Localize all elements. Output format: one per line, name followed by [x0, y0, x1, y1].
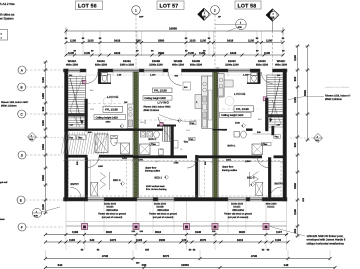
svg-text:D101C: D101C: [267, 206, 274, 209]
svg-text:5: 5: [251, 183, 252, 186]
svg-text:1100: 1100: [200, 38, 207, 42]
svg-text:400x 2100: 400x 2100: [266, 202, 277, 205]
svg-text:1100: 1100: [42, 77, 45, 83]
u56 entry wall: [85, 158, 88, 202]
window bottom u58 a: [228, 198, 246, 202]
u56 stair treads: [68, 76, 85, 78]
svg-text:F: F: [21, 225, 23, 229]
svg-text:BED 2: BED 2: [155, 177, 163, 180]
ffl box u58: [234, 106, 254, 112]
u58 pink post in wall: [263, 97, 267, 101]
label LOT 57: [157, 1, 184, 10]
svg-text:4745: 4745: [102, 254, 109, 258]
svg-text:4745: 4745: [251, 254, 258, 258]
svg-text:BED 3: BED 3: [113, 179, 121, 182]
u57 fan box upper: [190, 121, 197, 124]
svg-text:D102A: D102A: [106, 206, 113, 209]
u56 wc toilet: [102, 73, 108, 76]
u57 stair: [157, 125, 176, 127]
svg-text:WT11: WT11: [115, 142, 121, 145]
ceiling box u56: [94, 115, 126, 120]
svg-text:framing outline: framing outline: [222, 169, 238, 172]
svg-text:5: 5: [165, 176, 166, 179]
note box left edge: [0, 30, 8, 41]
u58 dim 900: [253, 133, 272, 135]
u58 stair treads: [267, 74, 283, 76]
svg-text:3413: 3413: [237, 238, 244, 242]
svg-text:235: 235: [136, 38, 141, 42]
svg-text:5273: 5273: [163, 254, 170, 258]
svg-text:1: 1: [135, 8, 137, 12]
small diamond markers 5A: [120, 124, 124, 128]
window bottom u57 a: [137, 198, 153, 202]
svg-text:E: E: [20, 198, 22, 202]
marker diamond A/1.06 right: [314, 134, 323, 143]
svg-text:3418: 3418: [114, 51, 121, 55]
svg-text:3520: 3520: [239, 230, 246, 234]
u57 bath top wall: [133, 128, 163, 130]
u58 wc toilet: [251, 73, 257, 76]
u57 bath fixtures row: [140, 132, 146, 138]
svg-text:129: 129: [182, 238, 187, 242]
svg-text:FFL 13.98: FFL 13.98: [154, 89, 167, 93]
svg-text:VERANDA: VERANDA: [157, 209, 169, 212]
grid bubble D: [18, 151, 26, 159]
svg-text:1,608: 1,608: [245, 160, 251, 163]
u58 bath top walls: [246, 128, 253, 130]
svg-text:800: 800: [294, 76, 297, 81]
door opening D100C top u58: [261, 72, 272, 83]
svg-text:UB: UB: [271, 16, 275, 19]
u57 cabinet row top: [183, 82, 191, 90]
ffl box u57: [153, 88, 173, 93]
u57 dim row mid: [134, 161, 212, 163]
svg-text:1100: 1100: [264, 51, 271, 55]
svg-text:Timber slat deck on ground: Timber slat deck on ground: [98, 213, 126, 216]
dim row bottom 1: [46, 234, 289, 236]
svg-text:2100x 2100: 2100x 2100: [154, 202, 167, 205]
svg-text:BATH 1: BATH 1: [228, 145, 237, 148]
u56 front door arc: [70, 187, 81, 198]
u57 shower: [140, 144, 151, 155]
svg-text:5: 5: [242, 124, 243, 127]
svg-text:1600: 1600: [98, 165, 104, 168]
svg-text:1100: 1100: [88, 38, 95, 42]
svg-text:Ceiling height 2420: Ceiling height 2420: [96, 116, 119, 119]
label LOT 58: [235, 1, 261, 9]
u56 dining table: [103, 97, 112, 106]
u56 kitchen counter: [128, 104, 134, 129]
svg-text:3520: 3520: [106, 230, 113, 234]
grid bubble E: [17, 196, 25, 204]
svg-text:h A2.2 Res: h A2.2 Res: [0, 2, 15, 6]
u57 rheem leader curve: [159, 115, 196, 122]
svg-text:1100: 1100: [294, 209, 297, 215]
u56 hwc: [121, 143, 130, 154]
svg-text:(not part of consent): (not part of consent): [102, 216, 123, 219]
svg-text:modules to be confirmed: modules to be confirmed: [325, 86, 350, 89]
u58 tiles box: [262, 142, 272, 146]
u56 stair arrow: [70, 78, 82, 124]
u57 bulkhead dashes: [139, 119, 200, 121]
dim row bottom 2: [46, 241, 289, 243]
svg-text:2600: 2600: [106, 120, 112, 123]
svg-text:1195: 1195: [42, 120, 45, 126]
svg-text:1415: 1415: [122, 157, 128, 160]
svg-text:1128: 1128: [136, 238, 143, 242]
section circle 2/A06 left-bottom: [32, 208, 41, 217]
svg-text:VERANDA: VERANDA: [232, 209, 244, 212]
u58 bath fixtures: [241, 131, 247, 138]
u57 upper floor dashed outline: [135, 161, 205, 197]
svg-text:1100: 1100: [188, 51, 195, 55]
u57 mid wall: [133, 155, 187, 158]
svg-text:Tiles: Tiles: [78, 136, 84, 139]
svg-text:10550: 10550: [181, 263, 189, 267]
svg-text:Ceiling height 2420: Ceiling height 2420: [144, 97, 166, 100]
svg-text:1815: 1815: [226, 159, 232, 162]
party wall 1 green: [133, 72, 139, 198]
grid bubble 2: [211, 5, 220, 14]
svg-text:LOT 58: LOT 58: [238, 3, 257, 9]
u58 fan box: [274, 135, 281, 138]
window D103B top: [144, 69, 163, 72]
u56 robe zigzag: [100, 173, 106, 189]
grid bubble A: [18, 66, 26, 74]
svg-text:A06: A06: [238, 26, 243, 29]
svg-text:1100: 1100: [294, 55, 297, 61]
dim row bottom 4: [46, 258, 331, 260]
svg-text:21346: 21346: [284, 144, 287, 150]
u58 stair treads lower: [267, 119, 283, 121]
svg-text:FFL 13.98: FFL 13.98: [236, 107, 249, 111]
svg-text:2418: 2418: [230, 51, 237, 55]
svg-text:3300: 3300: [42, 175, 45, 181]
svg-text:2980: 2980: [158, 38, 165, 42]
window bottom u56: [86, 198, 104, 202]
window D103C top: [228, 69, 250, 72]
u56 wc cabinets: [108, 75, 111, 84]
svg-text:ENTRY: ENTRY: [71, 183, 80, 186]
u58 wc wall: [258, 72, 261, 83]
svg-text:5: 5: [120, 125, 121, 128]
svg-text:D102B: D102B: [156, 206, 163, 209]
svg-text:1100: 1100: [248, 38, 255, 42]
grid bubble 1: [132, 6, 141, 15]
window bottom u58 b: [250, 198, 262, 202]
svg-text:1800 x 2100: 1800 x 2100: [120, 64, 135, 67]
wall bottom exterior: [64, 198, 87, 202]
svg-text:148: 148: [284, 263, 289, 267]
svg-text:1,100: 1,100: [150, 74, 156, 77]
u57 kitchen counter: [202, 76, 208, 128]
svg-text:2: 2: [214, 8, 216, 12]
u58 mid wall: [213, 155, 262, 158]
u56 wardrobe x-box: [91, 182, 98, 196]
svg-text:er System: er System: [0, 17, 14, 21]
svg-text:Upper floor: Upper floor: [145, 166, 157, 169]
svg-text:2180: 2180: [235, 121, 241, 124]
door opening D100A top u56: [86, 72, 97, 83]
svg-text:Rheem 160L indoor H: Rheem 160L indoor H: [325, 94, 350, 97]
u58 robe zigzag: [253, 172, 259, 183]
ceiling box u58: [220, 112, 252, 117]
svg-text:Fan: Fan: [190, 122, 195, 125]
svg-text:Timber slat deck on ground: Timber slat deck on ground: [224, 213, 252, 216]
svg-text:Upper floor: Upper floor: [222, 166, 234, 169]
u56 bulkhead dashes: [88, 103, 127, 105]
dim column right outer: [307, 46, 309, 140]
svg-text:1650: 1650: [42, 144, 45, 150]
u56 stair wall right: [85, 99, 88, 131]
ffl box u56: [103, 106, 123, 112]
svg-text:2205: 2205: [138, 159, 144, 162]
u56 bath top wall: [65, 128, 134, 130]
dim row bottom 5: [46, 267, 336, 269]
dim row 2: [66, 42, 283, 44]
u57 hwc box: [159, 149, 164, 155]
u57 stair door arc: [158, 117, 166, 125]
u57 stair side fixture: [174, 141, 179, 149]
svg-text:2100x 2100: 2100x 2100: [104, 202, 117, 205]
u57 kitchen return: [195, 95, 202, 109]
svg-text:LIVING: LIVING: [234, 92, 246, 96]
svg-text:(not part of consent): (not part of consent): [228, 216, 249, 219]
u58 stair mid landing: [266, 115, 284, 118]
svg-text:B: B: [21, 85, 23, 89]
svg-text:2418: 2418: [227, 38, 234, 42]
dim line overall 10550: [66, 30, 283, 32]
svg-text:455: 455: [294, 228, 297, 233]
grid diamond 2/UB: [266, 9, 279, 21]
svg-text:LIVING: LIVING: [107, 95, 119, 99]
svg-text:2100x 2100: 2100x 2100: [231, 202, 244, 205]
svg-text:3418: 3418: [114, 38, 121, 42]
u58 stair wall left: [265, 98, 268, 131]
svg-text:240: 240: [69, 74, 72, 77]
u58 dim row mid: [218, 161, 283, 163]
svg-text:5060: 5060: [304, 90, 307, 96]
svg-text:1100: 1100: [42, 204, 45, 210]
svg-text:5: 5: [178, 119, 179, 122]
window bottom u57 b: [158, 198, 174, 202]
marker diamond A/1.06 left: [28, 133, 37, 142]
u56 stair mid landing: [68, 114, 85, 116]
u58 shower: [252, 144, 263, 155]
svg-text:1100: 1100: [84, 51, 91, 55]
party wall 2 green: [213, 72, 219, 198]
svg-text:Fan: Fan: [189, 138, 194, 141]
svg-text:2075: 2075: [200, 238, 207, 242]
svg-text:SSP: SSP: [139, 16, 144, 19]
dim row 3: [66, 54, 283, 56]
sill dim ticks top interior: [67, 73, 69, 77]
svg-text:Timber slat deck on ground: Timber slat deck on ground: [149, 213, 177, 216]
svg-text:5: 5: [121, 182, 122, 185]
u57 fan box: [189, 137, 196, 140]
svg-text:810x 2100: 810x 2100: [256, 64, 269, 67]
u56 bath interior dim: [97, 132, 99, 156]
u57 door arc mid: [187, 158, 198, 169]
window D103A top: [113, 69, 139, 72]
svg-text:400x 1200: 400x 1200: [172, 64, 185, 67]
svg-text:VERANDA: VERANDA: [106, 209, 118, 212]
svg-text:400x 1200: 400x 1200: [275, 64, 288, 67]
svg-text:H23: H23: [302, 197, 305, 202]
window W102A top: [68, 69, 80, 72]
svg-text:340: 340: [90, 238, 95, 242]
u58 front door arc: [270, 187, 281, 198]
veranda posts: [82, 224, 88, 230]
svg-text:3300: 3300: [294, 183, 297, 189]
wall right exterior: [283, 69, 287, 201]
grid bubble B: [18, 83, 26, 91]
svg-text:1196: 1196: [275, 238, 282, 242]
svg-text:1107: 1107: [276, 230, 283, 234]
svg-text:Ø580 1133mm: Ø580 1133mm: [325, 98, 342, 101]
svg-text:10550: 10550: [169, 26, 177, 30]
u58 wc cabinets: [248, 75, 251, 84]
svg-text:1198: 1198: [72, 230, 79, 234]
grid bubble C: [18, 110, 26, 118]
svg-text:800: 800: [294, 142, 297, 147]
svg-text:1100: 1100: [70, 38, 77, 42]
svg-text:1100: 1100: [266, 38, 273, 42]
svg-text:240: 240: [277, 74, 280, 77]
u58 dining table: [225, 97, 234, 106]
svg-text:1100: 1100: [69, 238, 76, 242]
svg-text:oblique horizontal weatherboa: oblique horizontal weatherboa: [307, 241, 345, 245]
u56 fan tiles boxes: [69, 135, 76, 139]
svg-text:LOT 57: LOT 57: [160, 4, 179, 10]
u58 upper floor dashed outline: [218, 161, 281, 197]
u56 upper floor dashed outline: [69, 161, 127, 197]
deck edge line: [66, 225, 287, 227]
svg-text:2473: 2473: [110, 238, 117, 242]
svg-text:810x 2100: 810x 2100: [190, 64, 203, 67]
u56 shower: [95, 134, 108, 153]
u57 bed wall: [195, 155, 198, 197]
svg-text:295: 295: [142, 263, 147, 267]
svg-text:2905: 2905: [159, 238, 166, 242]
svg-text:1100: 1100: [190, 38, 197, 42]
dim column right inner: [297, 46, 299, 236]
door opening D100B top u57: [168, 72, 181, 85]
svg-text:Ceiling height 2420: Ceiling height 2420: [221, 114, 244, 117]
grid bubble F: [18, 223, 26, 231]
svg-text:400x 1200: 400x 1200: [66, 64, 79, 67]
u56 pink post in wall: [82, 80, 86, 84]
svg-text:543: 543: [58, 263, 63, 267]
u56 bath tile hatch: [61, 132, 108, 154]
u57 pink post in wall: [160, 122, 163, 125]
svg-text:2980: 2980: [158, 51, 165, 55]
u56 interior dim vline: [90, 160, 92, 196]
svg-text:Ø580 1133mm: Ø580 1133mm: [144, 109, 160, 112]
svg-text:1485: 1485: [42, 93, 45, 99]
svg-text:1786: 1786: [174, 161, 180, 164]
wall top exterior: [64, 69, 69, 72]
svg-text:ENTRY: ENTRY: [275, 183, 284, 186]
svg-text:fit in 14.0mm framing: fit in 14.0mm framing: [146, 188, 167, 191]
svg-text:LIVING: LIVING: [158, 101, 170, 105]
svg-text:1195: 1195: [294, 97, 297, 103]
u56 entry door arc: [88, 156, 100, 168]
u58 stair arrow: [270, 78, 280, 122]
svg-text:framing outline: framing outline: [145, 170, 161, 173]
u58 entry wall: [268, 158, 271, 202]
u56 mid wall: [65, 155, 88, 158]
u58 bulkhead dashes: [222, 108, 258, 110]
svg-text:Ø100 vertical stack: Ø100 vertical stack: [146, 185, 166, 188]
svg-text:FFL 13.98: FFL 13.98: [105, 108, 118, 112]
ceiling box u57: [143, 96, 172, 100]
svg-text:BED 3: BED 3: [247, 177, 255, 180]
u56 wc wall: [98, 72, 101, 83]
u58 kitchen counter: [218, 74, 224, 98]
svg-text:2100x 2100: 2100x 2100: [225, 64, 239, 67]
svg-text:gal wall: gal wall: [0, 181, 8, 184]
svg-text:1,100: 1,100: [243, 74, 249, 77]
svg-text:LOT 56: LOT 56: [78, 4, 97, 10]
svg-text:Ø580 1133mm: Ø580 1133mm: [1, 104, 17, 107]
u57 interior dim vline: [199, 160, 201, 196]
svg-text:810x 2100: 810x 2100: [95, 64, 108, 67]
section marker 2/A06: [236, 19, 247, 30]
bottom witness lines: [65, 201, 67, 250]
svg-text:3524: 3524: [155, 230, 162, 234]
dim column left: [45, 62, 47, 213]
svg-text:2100x 2100: 2100x 2100: [149, 64, 163, 67]
u58 entry door arc: [257, 156, 268, 167]
u58 wardrobe x-box: [256, 182, 263, 195]
u56 toilet bath: [111, 136, 117, 145]
svg-text:1945: 1945: [195, 230, 202, 234]
u56 dim row mid: [65, 159, 134, 161]
marker SP diamond: [198, 8, 211, 20]
label LOT 56: [76, 1, 103, 10]
wall left exterior: [65, 69, 69, 201]
svg-text:BATH 1: BATH 1: [149, 138, 158, 141]
svg-text:940: 940: [42, 106, 45, 111]
svg-text:D102C: D102C: [233, 206, 240, 209]
svg-text:(not part of consent): (not part of consent): [153, 216, 174, 219]
